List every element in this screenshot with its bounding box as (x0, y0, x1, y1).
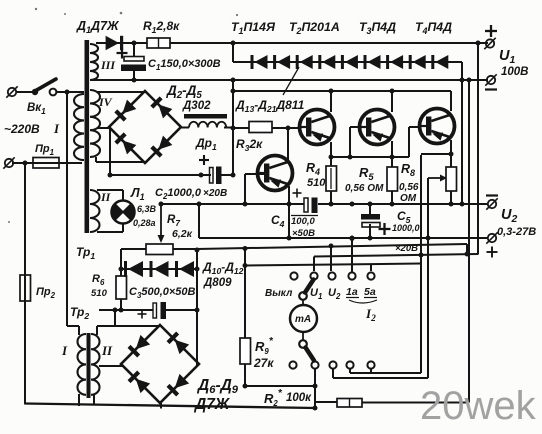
zener row D10-D12 D809 (128, 261, 143, 277)
wire bridge2 top vertex arm (114, 310, 116, 326)
transistor T1 (258, 156, 293, 191)
wire riser x=233 (zener chain feed) (232, 43, 234, 62)
wire T1 collector riser x=288 (287, 128, 289, 160)
svg-text:Д10-Д12: Д10-Д12 (202, 260, 244, 276)
transistor T3 (360, 110, 395, 145)
svg-text:510: 510 (307, 177, 326, 189)
wire winding IV bottom to bridge y=162 (95, 157, 97, 162)
wire 5a contact riser x=371 (370, 264, 372, 272)
svg-text:I2: I2 (365, 306, 376, 324)
wire zener chain row y=62 (233, 61, 462, 63)
switch Vk1 (32, 89, 38, 95)
wire bridge1 left vertex down x=110 (109, 128, 111, 175)
svg-text:Т3П4Д: Т3П4Д (359, 20, 396, 36)
wire bottom right y=403 (315, 401, 337, 403)
diode D1 (106, 36, 119, 50)
wire switch to transformer y=92 (57, 91, 84, 93)
svg-text:I: I (53, 121, 60, 136)
contact U2 bottom (329, 361, 336, 368)
svg-text:~220В: ~220В (4, 122, 40, 136)
bridge1 diode top-left (122, 100, 136, 114)
R8 wiper arrow (428, 177, 442, 179)
wire vertical x=199 (rail down to +U2 wire) (198, 204, 200, 238)
svg-text:0,56 ОМ: 0,56 ОМ (345, 183, 384, 194)
wire +U1 rail y=43 (96, 42, 147, 44)
fuse Pr2 (20, 275, 31, 301)
Tr2 winding I (78, 334, 87, 395)
Tr1 winding IV (90, 90, 100, 157)
lamp L1 (112, 201, 135, 224)
svg-text:Выкл: Выкл (265, 288, 293, 299)
wire Tr2 secondary tap to bridge2 y=366 (99, 365, 122, 367)
terminal mains bottom (5, 159, 13, 167)
wire Tr2 secondary top y=326 (97, 325, 115, 327)
resistor R4 (326, 166, 337, 191)
wire T4 emitter link y=154 (421, 153, 451, 155)
wire y=378 to x=428 (333, 377, 428, 379)
svg-text:100,0: 100,0 (291, 216, 315, 227)
svg-text:Пр2: Пр2 (36, 286, 56, 300)
wire vertical x=25 (through fuse Pr2) (24, 163, 26, 405)
wire X y=254-256 (U1 measure feed) (314, 254, 478, 257)
svg-text:II: II (101, 343, 113, 358)
potentiometer R7 (146, 244, 173, 255)
wire 1a contact riser x=352 (351, 238, 353, 272)
svg-text:U2: U2 (501, 207, 517, 225)
resistor R3 (249, 122, 272, 133)
svg-text:6,3В: 6,3В (137, 204, 157, 214)
terminal mains top (8, 88, 16, 96)
wire pot R7 left arm (121, 248, 146, 250)
svg-text:С4: С4 (271, 213, 285, 229)
contact U1 bottom (311, 361, 318, 368)
svg-text:×20В: ×20В (203, 188, 227, 199)
svg-text:С21000,0: С21000,0 (155, 187, 202, 201)
wire C1 risers (133, 43, 135, 57)
wire output rail y=204 (161, 203, 304, 205)
svg-text:Д2-Д5: Д2-Д5 (166, 83, 202, 101)
wire T4 collector riser (450, 91, 452, 111)
wire bottom contact 5ab riser (370, 369, 372, 373)
wire T4 base riser (408, 127, 410, 157)
wire zener row2 y=269 (121, 268, 197, 270)
contact Vykl top (290, 272, 297, 279)
terminal +U1 (486, 39, 494, 47)
wire U2 contact riser (330, 246, 332, 272)
capacitor C1 (124, 57, 144, 62)
svg-text:R5: R5 (359, 165, 374, 182)
transistor T2 (300, 110, 335, 145)
wire C y=266 (meter range row) (245, 264, 421, 266)
svg-text:Д1Д7Ж: Д1Д7Ж (76, 19, 120, 35)
contact 1a top (348, 272, 355, 279)
wire pot R7 right arm (173, 248, 197, 250)
wire bridge2 bottom vertex drop (160, 402, 162, 409)
svg-text:U2: U2 (328, 287, 341, 301)
svg-text:II: II (100, 190, 112, 204)
wire vertical x=67 (to Tr2 primary) (66, 92, 68, 326)
capacitor C2 (210, 168, 214, 184)
wire T3 base stub (350, 126, 360, 128)
svg-text:I: I (61, 343, 68, 358)
wire T1 base (245, 173, 265, 175)
svg-text:0,3-27В: 0,3-27В (497, 226, 536, 238)
svg-text:тА: тА (295, 314, 311, 325)
wire bottom contact 1ab riser (349, 369, 351, 373)
wire mains bottom with fuse y=163 (12, 162, 82, 164)
terminal -U2 (488, 200, 496, 208)
wire lamp bottom (97, 231, 123, 233)
bridge1 diode top-right (158, 104, 172, 118)
svg-text:Л1: Л1 (130, 186, 145, 202)
transformer Tr1 core (85, 40, 90, 233)
wire top rail of transistor box y=91 (232, 90, 451, 92)
wire mains top terminal to switch (16, 91, 33, 93)
bridge1 diode bottom-right (158, 136, 172, 150)
resistor R1 (147, 38, 170, 48)
wire vertical x=421 (T4 emitter link down) (420, 155, 422, 373)
svg-text:Д302: Д302 (182, 100, 211, 112)
svg-text:×50В: ×50В (292, 228, 315, 239)
svg-text:IV: IV (98, 95, 113, 109)
svg-text:R9*: R9* (255, 336, 274, 356)
wire R4 connections (330, 157, 332, 166)
wire vertical x=197 (pot to bridge2) (196, 249, 198, 366)
svg-text:U1: U1 (499, 48, 515, 66)
fuse Pr1 (33, 158, 59, 169)
wire vertical x=478 (+U1 down) (477, 43, 479, 255)
svg-text:510: 510 (91, 288, 108, 299)
svg-text:5а: 5а (364, 286, 376, 298)
R7 wiper arrow (160, 204, 162, 236)
Tr1 winding III (90, 44, 98, 80)
switch lever top (299, 292, 307, 300)
svg-text:R7: R7 (167, 214, 180, 228)
svg-text:R6: R6 (92, 273, 105, 287)
choke Dr1 coil (189, 122, 226, 128)
contact U1 top (310, 272, 317, 279)
potentiometer R8 (446, 167, 457, 191)
wire Dr1 output y=127 (181, 127, 189, 129)
contact 1a bottom (346, 361, 353, 368)
svg-text:III: III (100, 58, 116, 72)
svg-text:R12,8к: R12,8к (143, 19, 180, 35)
svg-text:6,2к: 6,2к (172, 228, 193, 240)
wire R9 branch x=245 (244, 249, 246, 339)
wire y=238 (+U2 rail) (199, 237, 488, 239)
label I2 brace (349, 300, 377, 303)
contact 5a bottom (367, 361, 374, 368)
contact Vykl bottom (289, 361, 296, 368)
wire R5 bottom (391, 191, 393, 204)
wire vertical x=469 (minus U1 down to meter resistor) (468, 80, 470, 403)
svg-text:С1150,0×300В: С1150,0×300В (148, 58, 221, 72)
svg-text:Др1: Др1 (195, 136, 217, 152)
svg-text:27к: 27к (253, 356, 274, 370)
svg-text:Т2П201А: Т2П201А (289, 20, 340, 36)
wire Tr2 primary bottom drop (78, 394, 80, 406)
meter mA (290, 305, 317, 332)
resistor R6 (116, 276, 127, 299)
wire base row y=128 with R3 (233, 127, 249, 129)
svg-text:0,28а: 0,28а (133, 218, 156, 228)
svg-text:1а: 1а (346, 286, 358, 298)
svg-text:Пр1: Пр1 (35, 143, 54, 157)
capacitor C5 (361, 214, 380, 220)
svg-text:Д7Ж: Д7Ж (193, 396, 231, 413)
svg-text:U1: U1 (310, 287, 322, 301)
terminal -U1 (487, 76, 495, 84)
capacitor C3 (153, 303, 157, 318)
terminal +U2 (488, 234, 496, 242)
wire bottom contact U1b riser (314, 369, 316, 409)
resistor R2 shunt (337, 399, 362, 408)
wire T1 emitter drop x=289 (288, 186, 290, 238)
wire T3 collector riser (391, 91, 393, 112)
svg-text:100В: 100В (501, 66, 529, 78)
wire T2 collector riser (330, 91, 332, 112)
wire R6 branch x=121 (120, 269, 122, 276)
svg-text:R4: R4 (306, 161, 320, 177)
svg-text:R32к: R32к (236, 137, 263, 153)
wire T3 emitter drop (391, 141, 393, 167)
wire C3 row y=310 (99, 309, 153, 311)
transformer Tr2 core (87, 333, 91, 398)
wire y=373 to x=421 (350, 372, 421, 374)
svg-text:R2*: R2* (264, 388, 283, 408)
pointer line to D13 label (283, 67, 299, 95)
wire bottom contact U2b riser (332, 369, 334, 378)
wire x=233 node column (232, 80, 234, 175)
wire y=175 (C2 row) (110, 174, 211, 176)
bridge2 diode top-left (136, 335, 150, 349)
svg-text:0,56: 0,56 (399, 182, 419, 193)
bridge2 diode bottom-left (136, 379, 150, 393)
wire base drive rail y=157 (331, 156, 409, 158)
zener chain D13-D21 D811 (255, 55, 268, 69)
svg-text:Т4П4Д: Т4П4Д (415, 20, 452, 36)
wire y=326 to Tr2 primary top (67, 325, 79, 327)
transistor T4 (420, 109, 455, 144)
svg-text:1000,0: 1000,0 (392, 223, 420, 233)
wire riser x=462 (chain end down to minus rails) (461, 62, 463, 204)
bridge2 diode top-right (175, 340, 189, 354)
contact 5a top (367, 272, 374, 279)
svg-text:Д6-Д9: Д6-Д9 (196, 377, 239, 396)
wire -U1 rail y=80 (92, 79, 488, 81)
wire C5 risers (369, 204, 371, 215)
wire R8 pot connections (450, 154, 452, 167)
svg-text:Тр1: Тр1 (76, 245, 95, 261)
Tr1 winding I (74, 94, 84, 160)
wire T3 base riser (349, 127, 351, 157)
svg-text:ОМ: ОМ (400, 193, 417, 204)
scan specks (8, 8, 323, 223)
svg-text:Тр2: Тр2 (70, 305, 89, 321)
svg-text:Д809: Д809 (203, 277, 232, 289)
svg-text:R8: R8 (401, 162, 415, 178)
wire winding IV left stub y=128 (97, 127, 110, 129)
wire T4 emitter drop (450, 140, 452, 154)
bridge1 diode bottom-left (122, 140, 136, 154)
svg-text:100к: 100к (286, 392, 312, 404)
wire U1 contact riser (313, 257, 315, 272)
bridge2 diode bottom-right (175, 374, 189, 388)
bridge D6-D9 diamond (121, 325, 199, 403)
choke Dr1 core bar (184, 114, 227, 119)
wire T2 emitter drop (330, 142, 332, 157)
wire bottom rail y=403-408 (25, 404, 316, 409)
wire winding IV top to bridge y=92 (97, 91, 145, 93)
resistor R9 (240, 338, 251, 364)
contact U2 top (328, 272, 335, 279)
svg-text:20wek: 20wek (420, 384, 537, 428)
wire lamp top (97, 189, 123, 191)
svg-text:Вк1: Вк1 (27, 102, 46, 116)
svg-text:С3500,0×50В: С3500,0×50В (129, 286, 196, 300)
wire B y=249-244 (+100V feed) (197, 244, 467, 249)
wire vertical x=428 (R8 wiper down) (427, 178, 429, 378)
switch lever bottom (299, 340, 307, 348)
svg-text:Т1П14Я: Т1П14Я (231, 20, 276, 36)
svg-text:Д13-Д21Д811: Д13-Д21Д811 (235, 98, 305, 114)
Tr1 winding II (90, 190, 100, 232)
Tr2 winding II (91, 334, 100, 395)
capacitor C4 (304, 198, 308, 212)
bridge D2-D5 diamond (109, 91, 181, 163)
svg-text:×20В: ×20В (395, 243, 418, 254)
resistor R5 (387, 167, 398, 191)
